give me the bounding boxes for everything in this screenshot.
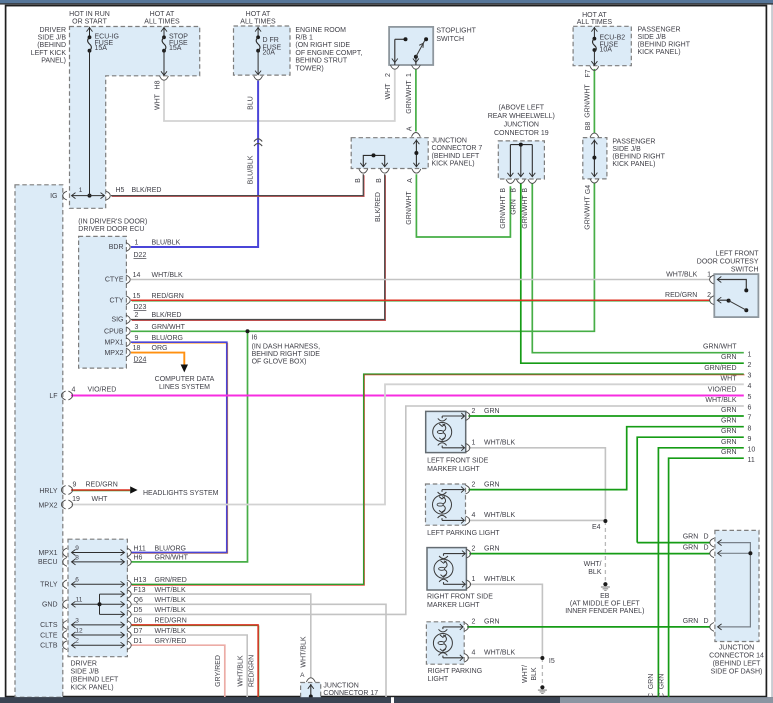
svg-text:1: 1 [135,240,139,247]
svg-text:I6: I6 [252,335,258,342]
svg-text:KICK PANEL): KICK PANEL) [638,49,681,56]
svg-text:A: A [407,126,414,131]
svg-text:CONNECTOR 19: CONNECTOR 19 [494,130,549,137]
svg-text:9: 9 [748,436,752,443]
svg-text:D: D [704,544,709,551]
svg-text:12: 12 [75,627,83,634]
svg-text:STOPLIGHT: STOPLIGHT [436,28,476,35]
svg-text:GRN: GRN [658,674,665,690]
svg-text:MARKER LIGHT: MARKER LIGHT [427,466,480,473]
svg-text:CLTS: CLTS [40,622,58,629]
svg-text:GRN: GRN [511,199,518,215]
svg-text:4: 4 [471,512,475,519]
svg-text:GRN/RED: GRN/RED [155,577,187,584]
svg-text:GRN/WHT: GRN/WHT [585,196,592,230]
svg-text:MPX1: MPX1 [104,339,123,346]
svg-text:PASSENGER: PASSENGER [612,139,655,146]
svg-text:GRN/WHT: GRN/WHT [152,324,186,331]
svg-text:D: D [704,534,709,541]
svg-text:GRN: GRN [648,674,655,690]
svg-text:BECU: BECU [38,559,57,566]
svg-text:LINES SYSTEM: LINES SYSTEM [159,384,210,391]
svg-text:H8: H8 [155,80,162,89]
svg-text:3: 3 [135,324,139,331]
svg-text:WHT/: WHT/ [584,561,602,568]
svg-text:10: 10 [748,446,756,453]
svg-text:BLU: BLU [247,96,254,110]
svg-text:GRN/WHT: GRN/WHT [155,555,189,562]
svg-text:9: 9 [135,335,139,342]
svg-text:HRLY: HRLY [39,488,57,495]
svg-text:LEFT KICK: LEFT KICK [31,50,67,57]
svg-text:HOT AT: HOT AT [246,11,271,18]
svg-text:EB: EB [600,593,610,600]
svg-text:GRY/RED: GRY/RED [215,655,222,687]
svg-text:15A: 15A [169,45,182,52]
svg-text:HOT AT: HOT AT [150,11,175,18]
svg-text:D: D [704,618,709,625]
svg-text:GRN: GRN [683,544,699,551]
svg-text:WHT: WHT [92,496,109,503]
svg-text:GRN: GRN [683,534,699,541]
svg-text:2: 2 [385,73,392,77]
svg-text:Q6: Q6 [134,597,143,604]
svg-text:8: 8 [75,554,79,561]
svg-text:WHT/BLK: WHT/BLK [155,607,186,614]
svg-text:TOWER): TOWER) [295,65,323,72]
svg-text:WHT: WHT [385,83,392,100]
svg-text:CLTE: CLTE [40,632,58,639]
svg-text:LEFT FRONT SIDE: LEFT FRONT SIDE [427,458,489,465]
svg-text:JUNCTION: JUNCTION [719,644,754,651]
svg-text:WHT/BLK: WHT/BLK [484,512,515,519]
svg-text:KICK PANEL): KICK PANEL) [432,161,475,168]
svg-text:H13: H13 [134,577,147,584]
svg-text:REAR WHEELWELL): REAR WHEELWELL) [488,113,555,120]
svg-text:BEHIND RIGHT SIDE: BEHIND RIGHT SIDE [252,351,321,358]
svg-text:3: 3 [75,617,79,624]
svg-text:2: 2 [748,362,752,369]
svg-text:GRN/WHT: GRN/WHT [703,344,737,351]
svg-text:GRN/WHT: GRN/WHT [406,191,413,225]
svg-text:SIDE J/B: SIDE J/B [638,34,667,41]
svg-text:BLK: BLK [531,667,538,681]
svg-text:2: 2 [471,545,475,552]
svg-text:B: B [511,188,518,193]
svg-text:2: 2 [135,312,139,319]
svg-text:4: 4 [471,650,475,657]
svg-text:WHT/BLK: WHT/BLK [484,650,515,657]
svg-text:OR START: OR START [72,18,107,25]
svg-text:7: 7 [748,415,752,422]
svg-text:RED/GRN: RED/GRN [249,655,256,687]
svg-text:1: 1 [79,187,83,194]
svg-text:KICK PANEL): KICK PANEL) [71,684,114,691]
svg-text:RED/GRN: RED/GRN [155,618,187,625]
svg-text:B: B [376,178,383,183]
svg-text:CONNECTOR 7: CONNECTOR 7 [432,145,483,152]
svg-text:WHT/BLK: WHT/BLK [705,397,736,404]
svg-text:WHT/BLK: WHT/BLK [484,576,515,583]
svg-text:WHT/BLK: WHT/BLK [152,272,183,279]
svg-text:D23: D23 [134,304,147,311]
svg-text:GRN/WHT: GRN/WHT [500,195,507,229]
svg-text:RED/GRN: RED/GRN [152,293,184,300]
svg-text:GRN/WHT: GRN/WHT [522,195,529,229]
svg-text:(BEHIND LEFT: (BEHIND LEFT [713,660,762,667]
svg-text:5: 5 [748,394,752,401]
svg-text:(BEHIND LEFT: (BEHIND LEFT [71,676,120,683]
svg-text:PANEL): PANEL) [41,58,66,65]
svg-text:(IN DASH HARNESS,: (IN DASH HARNESS, [252,344,321,351]
svg-text:BLU/ORG: BLU/ORG [155,545,187,552]
svg-text:GRN/RED: GRN/RED [704,365,736,372]
svg-text:GND: GND [42,602,58,609]
svg-text:(BEHIND RIGHT: (BEHIND RIGHT [638,42,691,49]
svg-text:MPX2: MPX2 [38,502,57,509]
svg-text:GRN/WHT: GRN/WHT [585,84,592,118]
svg-text:ORG: ORG [152,345,168,352]
svg-text:BLU/ORG: BLU/ORG [152,335,184,342]
svg-text:SWITCH: SWITCH [436,36,464,43]
svg-text:ENGINE ROOM: ENGINE ROOM [295,27,346,34]
svg-text:WHT/BLK: WHT/BLK [155,587,186,594]
svg-text:2: 2 [471,481,475,488]
svg-text:(BEHIND LEFT: (BEHIND LEFT [432,153,481,160]
svg-text:WHT/BLK: WHT/BLK [484,440,515,447]
svg-text:MPX2: MPX2 [104,350,123,357]
svg-text:HOT IN RUN: HOT IN RUN [69,11,110,18]
svg-text:BLK/RED: BLK/RED [132,187,162,194]
svg-text:GRY/RED: GRY/RED [155,638,187,645]
svg-text:SIDE J/B: SIDE J/B [38,35,67,42]
svg-text:1: 1 [707,271,711,278]
svg-text:GRN: GRN [484,408,500,415]
svg-text:TRLY: TRLY [40,582,58,589]
svg-text:WHT/: WHT/ [522,665,529,683]
svg-text:10A: 10A [600,47,613,54]
svg-text:B: B [355,178,362,183]
svg-text:1: 1 [748,351,752,358]
svg-text:GRN: GRN [721,354,737,361]
svg-text:JUNCTION: JUNCTION [323,682,358,689]
svg-text:DRIVER: DRIVER [40,27,66,34]
svg-text:CTY: CTY [110,297,124,304]
svg-text:RED/GRN: RED/GRN [86,482,118,489]
svg-text:CONNECTOR 17: CONNECTOR 17 [323,690,378,697]
svg-text:BEHIND STRUT: BEHIND STRUT [295,58,347,65]
svg-text:2: 2 [471,408,475,415]
svg-text:GRN: GRN [721,449,737,456]
svg-text:I5: I5 [549,658,555,665]
svg-text:KICK PANEL): KICK PANEL) [612,161,655,168]
svg-text:20A: 20A [263,50,276,57]
svg-text:15A: 15A [95,45,108,52]
svg-text:RED/GRN: RED/GRN [665,292,697,299]
svg-text:BLU/BLK: BLU/BLK [152,240,181,247]
svg-text:GRN/WHT: GRN/WHT [406,80,413,114]
svg-text:11: 11 [76,597,83,604]
svg-text:F7: F7 [585,69,592,77]
svg-text:GRN: GRN [683,618,699,625]
svg-text:WHT: WHT [721,375,738,382]
svg-text:R/B 1: R/B 1 [295,35,313,42]
svg-text:ALL TIMES: ALL TIMES [240,18,276,25]
svg-text:DRIVER DOOR ECU: DRIVER DOOR ECU [78,226,144,233]
svg-text:(IN DRIVER'S DOOR): (IN DRIVER'S DOOR) [78,218,147,225]
svg-text:GRN: GRN [484,545,500,552]
svg-text:SWITCH: SWITCH [731,267,759,274]
svg-text:LF: LF [49,393,57,400]
svg-text:18: 18 [133,345,141,352]
svg-text:1: 1 [471,440,475,447]
svg-text:CONNECTOR 14: CONNECTOR 14 [709,652,764,659]
svg-text:4: 4 [748,383,752,390]
svg-text:D22: D22 [134,252,147,259]
svg-text:H11: H11 [134,545,146,552]
svg-text:19: 19 [72,496,80,503]
svg-text:H6: H6 [134,555,143,562]
svg-text:(ABOVE LEFT: (ABOVE LEFT [499,105,545,112]
svg-text:14: 14 [133,272,141,279]
svg-text:SIDE J/B: SIDE J/B [71,668,100,675]
svg-text:COMPUTER DATA: COMPUTER DATA [155,376,215,383]
svg-text:GRN: GRN [484,619,500,626]
svg-text:1: 1 [471,576,475,583]
svg-text:9: 9 [75,545,79,552]
svg-text:B: B [522,188,529,193]
svg-text:E4: E4 [592,524,601,531]
svg-text:3: 3 [748,373,752,380]
svg-text:6: 6 [748,405,752,412]
svg-text:SIG: SIG [111,317,123,324]
svg-text:D24: D24 [134,356,147,363]
svg-text:15: 15 [133,293,141,300]
svg-text:9: 9 [73,482,77,489]
svg-text:GRN: GRN [484,481,500,488]
svg-text:D6: D6 [134,618,143,625]
svg-text:4: 4 [72,387,76,394]
svg-text:WHT/BLK: WHT/BLK [666,271,697,278]
svg-text:SIDE J/B: SIDE J/B [612,146,641,153]
svg-text:JUNCTION: JUNCTION [504,122,539,129]
svg-text:VIO/RED: VIO/RED [88,387,117,394]
svg-text:D5: D5 [134,607,143,614]
svg-text:MPX1: MPX1 [38,550,57,557]
svg-text:A: A [300,672,305,679]
svg-text:F13: F13 [134,587,146,594]
svg-text:RIGHT PARKING: RIGHT PARKING [428,668,483,675]
svg-text:LEFT PARKING LIGHT: LEFT PARKING LIGHT [427,530,500,537]
svg-text:ALL TIMES: ALL TIMES [144,18,180,25]
svg-text:DRIVER: DRIVER [71,660,97,667]
svg-text:CTYE: CTYE [105,277,124,284]
svg-text:CPUB: CPUB [104,329,124,336]
svg-text:D7: D7 [134,628,143,635]
svg-text:HOT AT: HOT AT [582,12,607,19]
svg-text:ALL TIMES: ALL TIMES [577,19,613,26]
svg-text:B: B [500,188,507,193]
svg-text:WHT: WHT [155,93,162,110]
svg-text:2: 2 [75,638,79,645]
svg-text:OF ENGINE COMPT,: OF ENGINE COMPT, [295,50,362,57]
svg-text:D1: D1 [134,638,143,645]
svg-text:8: 8 [748,425,752,432]
svg-text:G4: G4 [585,185,592,194]
svg-text:BLU/BLK: BLU/BLK [247,155,254,184]
svg-text:6: 6 [75,577,79,584]
svg-text:CLTB: CLTB [40,643,58,650]
svg-text:BLK: BLK [588,569,602,576]
svg-text:PASSENGER: PASSENGER [638,26,681,33]
svg-text:BLK/RED: BLK/RED [152,312,182,319]
svg-text:WHT/BLK: WHT/BLK [237,655,244,686]
svg-text:(BEHIND RIGHT: (BEHIND RIGHT [612,154,665,161]
svg-text:JUNCTION: JUNCTION [432,137,467,144]
svg-text:2: 2 [471,619,475,626]
svg-text:(BEHIND: (BEHIND [37,42,66,49]
svg-text:LIGHT: LIGHT [428,676,449,683]
svg-text:MARKER LIGHT: MARKER LIGHT [427,602,480,609]
svg-text:B8: B8 [585,122,592,131]
svg-text:HEADLIGHTS SYSTEM: HEADLIGHTS SYSTEM [143,490,219,497]
svg-text:BDR: BDR [109,244,124,251]
svg-text:WHT/BLK: WHT/BLK [155,597,186,604]
svg-text:GRN: GRN [721,439,737,446]
svg-text:GRN: GRN [721,428,737,435]
svg-text:VIO/RED: VIO/RED [708,387,737,394]
svg-text:H5: H5 [116,187,125,194]
svg-text:OF GLOVE BOX): OF GLOVE BOX) [252,359,307,366]
svg-text:DOOR COURTESY: DOOR COURTESY [697,258,759,265]
svg-text:BLK/RED: BLK/RED [375,192,382,222]
svg-text:A: A [407,178,414,183]
svg-text:11: 11 [748,457,755,464]
svg-text:GRN: GRN [721,407,737,414]
svg-text:IG: IG [50,193,57,200]
svg-text:GRN: GRN [721,418,737,425]
svg-text:RIGHT FRONT SIDE: RIGHT FRONT SIDE [427,594,493,601]
svg-text:WHT/BLK: WHT/BLK [300,636,307,667]
svg-text:2: 2 [707,292,711,299]
svg-text:INNER FENDER PANEL): INNER FENDER PANEL) [565,608,644,615]
svg-text:SIDE OF DASH): SIDE OF DASH) [711,668,763,675]
svg-text:D FR: D FR [263,37,279,44]
svg-text:LEFT FRONT: LEFT FRONT [715,250,759,257]
svg-text:(ON RIGHT SIDE: (ON RIGHT SIDE [295,42,350,49]
svg-text:WHT/BLK: WHT/BLK [155,628,186,635]
svg-text:(AT MIDDLE OF LEFT: (AT MIDDLE OF LEFT [570,601,640,608]
svg-text:1: 1 [406,73,413,77]
